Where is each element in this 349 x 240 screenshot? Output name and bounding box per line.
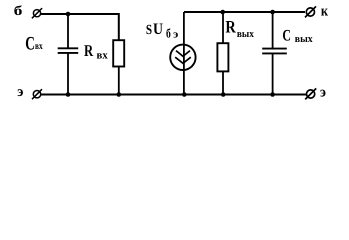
svg-text:C: C: [282, 27, 291, 44]
label S Uбэ: [146, 21, 179, 40]
node: Rвых top junction: [220, 10, 225, 15]
svg-text:R: R: [84, 41, 94, 60]
terminal э (emitter), bottom-right, circle with slash: [305, 88, 316, 99]
wire: current source vertical branch: [183, 12, 185, 95]
label Rвых: [225, 17, 254, 41]
node: Cвых bottom junction: [270, 92, 275, 97]
svg-text:вх: вх: [97, 49, 109, 61]
wire: Cвых bottom lead: [272, 54, 274, 95]
wire: Cвых top lead: [272, 12, 274, 48]
label Rвх: [84, 41, 108, 62]
node: Rвых bottom junction: [221, 92, 226, 97]
svg-text:C: C: [25, 33, 35, 54]
capacitor Cвх: [58, 48, 78, 53]
label Cвых: [282, 27, 313, 45]
label Cвх: [25, 33, 42, 54]
svg-text:э: э: [320, 85, 326, 101]
svg-text:э: э: [173, 28, 178, 40]
resistor Rвых: [217, 43, 228, 71]
wire: Cвх top lead: [67, 14, 69, 48]
svg-text:э: э: [17, 84, 23, 100]
wire: top-right horizontal from current source to к: [184, 11, 305, 13]
node: Cвых top junction: [270, 10, 275, 15]
wire: bottom horizontal from э to э: [41, 94, 306, 96]
svg-text:вх: вх: [35, 41, 43, 52]
terminal к (collector), top-right, circle with slash: [305, 6, 316, 17]
wire: Rвх bottom lead: [118, 67, 120, 96]
node: Cвх bottom junction: [66, 92, 71, 97]
wire: Rвых top lead: [222, 12, 224, 44]
svg-text:к: к: [321, 4, 328, 20]
resistor Rвх: [113, 40, 124, 66]
svg-text:б: б: [14, 3, 23, 18]
svg-text:R: R: [225, 17, 236, 37]
terminal б (base), top-left, circle with slash: [32, 8, 42, 18]
terminal э (emitter), bottom-left, circle with slash: [32, 89, 42, 99]
svg-text:U: U: [153, 21, 163, 38]
svg-text:S: S: [146, 23, 152, 38]
capacitor Cвых: [262, 49, 287, 54]
svg-text:вых: вых: [295, 34, 314, 45]
wire: Rвых bottom lead: [222, 71, 224, 95]
current source SUбэ (circle with double arrowhead): [170, 45, 195, 70]
node: Rвх bottom junction: [117, 92, 122, 97]
node: current source bottom junction: [182, 92, 187, 97]
wire: top-left horizontal from б terminal, corner down to Rвх: [41, 14, 119, 41]
node: Cвх top junction: [66, 12, 71, 17]
svg-text:б: б: [166, 25, 171, 40]
svg-text:вых: вых: [237, 29, 255, 40]
wire: Cвх bottom lead: [67, 54, 69, 96]
